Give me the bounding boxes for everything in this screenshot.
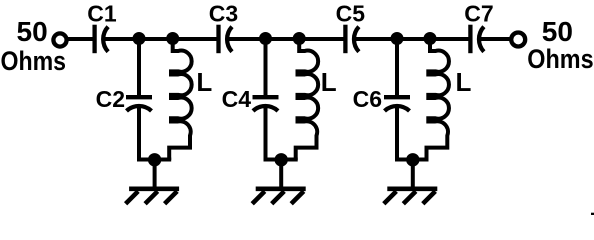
svg-text:C7: C7: [464, 1, 493, 27]
svg-text:C3: C3: [209, 1, 238, 27]
node: top junction dot for C2: [133, 32, 146, 45]
wire: bottom junction bar (section 2): [264, 158, 298, 162]
capacitor C3: [219, 25, 233, 54]
page corner mark (bottom-right artifact): [591, 213, 594, 215]
svg-text:50: 50: [542, 16, 573, 47]
label: left port impedance "50": [17, 16, 48, 47]
label C5: [336, 1, 366, 27]
wire: left terminal to C1: [67, 37, 93, 41]
label C1: [87, 1, 117, 27]
wire: C7 to right terminal: [480, 37, 512, 41]
label L (section 2): [321, 67, 337, 97]
svg-text:C2: C2: [96, 86, 125, 112]
capacitor C6: [384, 97, 410, 111]
wire: bottom junction bar (section 3): [395, 158, 429, 162]
label C4: [222, 86, 252, 112]
svg-text:Ohms: Ohms: [527, 44, 593, 74]
label: right port impedance "50": [542, 16, 573, 47]
inductor L (section 3): [427, 37, 449, 161]
wire: C5 to C7 (through nodes 5 and 6): [355, 37, 470, 41]
inductor L (section 2): [296, 37, 318, 161]
wire: C2 top lead: [137, 39, 141, 96]
node: top junction dot for L (section 2): [293, 32, 306, 45]
label C2: [96, 86, 125, 112]
ground (section 1): [126, 160, 180, 204]
svg-text:50: 50: [17, 16, 48, 47]
node: top junction dot for C4: [259, 32, 272, 45]
svg-text:L: L: [196, 67, 212, 97]
wire: C4 top lead: [264, 39, 268, 96]
label C7: [464, 1, 493, 27]
svg-text:Ohms: Ohms: [1, 46, 67, 76]
node: top junction dot for L (section 1): [166, 32, 179, 45]
node: bottom junction dot (section 1): [148, 153, 161, 166]
wire: C2 bottom lead: [137, 108, 141, 162]
capacitor C4: [253, 97, 279, 111]
node: top junction dot for L (section 3): [424, 32, 437, 45]
capacitor C5: [345, 25, 359, 54]
svg-text:C4: C4: [222, 86, 252, 112]
node: top junction dot for C6: [391, 32, 404, 45]
svg-text:C1: C1: [87, 1, 117, 27]
wire: bottom junction bar (section 1): [137, 158, 171, 162]
ground (section 2): [252, 160, 306, 204]
ground (section 3): [384, 160, 438, 204]
label L (section 3): [456, 67, 472, 97]
wire: C3 to C5 (through nodes 3 and 4): [228, 37, 345, 41]
capacitor C7: [470, 25, 484, 54]
label: right port "Ohms": [527, 44, 593, 74]
svg-text:C6: C6: [353, 86, 382, 112]
label C3: [209, 1, 238, 27]
wire: C6 top lead: [395, 39, 399, 96]
terminal: left 50-ohm port circle: [53, 33, 66, 46]
svg-text:L: L: [321, 67, 337, 97]
node: bottom junction dot (section 3): [406, 153, 419, 166]
capacitor C1: [95, 25, 109, 54]
capacitor C2: [126, 97, 152, 111]
label C6: [353, 86, 382, 112]
inductor L (section 1): [169, 37, 191, 161]
wire: C4 bottom lead: [264, 108, 268, 162]
svg-text:L: L: [456, 67, 472, 97]
svg-text:C5: C5: [336, 1, 366, 27]
node: bottom junction dot (section 2): [275, 153, 288, 166]
label: left port "Ohms": [1, 46, 67, 76]
wire: C1 to C3 (through nodes 1 and 2): [104, 37, 218, 41]
label L (section 1): [196, 67, 212, 97]
wire: C6 bottom lead: [395, 108, 399, 162]
terminal: right 50-ohm port circle: [511, 33, 525, 47]
